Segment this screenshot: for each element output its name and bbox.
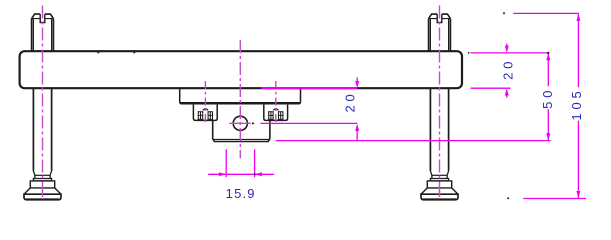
svg-text:20: 20 bbox=[500, 58, 515, 80]
dim extension bracket-bottom long bbox=[276, 140, 551, 142]
node dot 105 bottom bbox=[507, 197, 509, 199]
dim 20 mid tails bbox=[356, 78, 358, 141]
dim 50 arrow bottom bbox=[546, 133, 550, 140]
node dot ext top right bbox=[468, 52, 470, 54]
left leg Q1 bbox=[24, 14, 61, 200]
node dot 15.9 arrow bbox=[254, 173, 256, 175]
dim 15.9 arrow right bbox=[255, 172, 262, 176]
centerline right leg bbox=[439, 6, 441, 197]
centerline left leg bbox=[42, 6, 44, 197]
clamp block left bbox=[193, 105, 217, 121]
dim 50 arrow top bbox=[546, 53, 550, 60]
centerline hole horizontal bbox=[229, 122, 254, 124]
dim extension bar-bottom right bbox=[471, 87, 511, 89]
U-bracket bbox=[213, 120, 270, 141]
main bar bbox=[20, 51, 462, 88]
right leg Q2 bbox=[421, 14, 458, 200]
dim extension hole-center to 20 dim bbox=[261, 122, 358, 124]
dim 15.9 extension right bbox=[254, 149, 256, 177]
centerline left leg lower dash bbox=[42, 190, 44, 197]
plate bottom thick edge bbox=[181, 102, 300, 104]
svg-text:50: 50 bbox=[540, 87, 555, 109]
svg-text:15.9: 15.9 bbox=[226, 186, 256, 201]
dim 15.9 arrow left bbox=[219, 172, 226, 176]
dim extension bar-bottom mid bbox=[261, 87, 357, 89]
node dot 105 top bbox=[503, 12, 505, 14]
dim extension leg-top 105 bbox=[513, 12, 579, 14]
dim 15.9 extension left bbox=[225, 149, 227, 177]
dim 105 line bbox=[577, 14, 579, 199]
centerline screw S2 bbox=[275, 81, 277, 125]
dim extension foot-bottom 105 bbox=[523, 198, 586, 200]
svg-text:105: 105 bbox=[569, 87, 584, 120]
dim 105 arrow bottom bbox=[576, 191, 580, 198]
dim extension bar-top right bbox=[471, 52, 549, 54]
dim 50 line bbox=[547, 53, 549, 140]
centerline screw S1 bbox=[204, 81, 206, 125]
centerline main bbox=[239, 40, 241, 158]
hole H1 bbox=[233, 116, 247, 130]
node dot hole crosshair bbox=[252, 122, 254, 124]
U-bracket inner bottom line bbox=[213, 138, 269, 140]
dim 20 right arrow bottom bbox=[505, 88, 509, 95]
dim 20 mid arrow top bbox=[355, 81, 359, 88]
hole center mark A bbox=[97, 51, 99, 53]
dim 20 mid arrow bottom bbox=[355, 124, 359, 131]
svg-text:20: 20 bbox=[342, 90, 357, 112]
clamp block right bbox=[264, 105, 288, 121]
hole center mark B bbox=[133, 51, 135, 53]
dim 15.9 line bbox=[208, 173, 274, 175]
dim 20 right tails bbox=[506, 44, 508, 98]
mounting plate bbox=[180, 88, 301, 103]
centerline right leg lower dash bbox=[439, 190, 441, 197]
node dot 50 top bbox=[547, 52, 549, 54]
screw S2 bbox=[268, 109, 283, 120]
dim 105 arrow top bbox=[576, 14, 580, 21]
dim 20 right arrow top bbox=[505, 46, 509, 53]
screw S1 bbox=[198, 109, 213, 120]
